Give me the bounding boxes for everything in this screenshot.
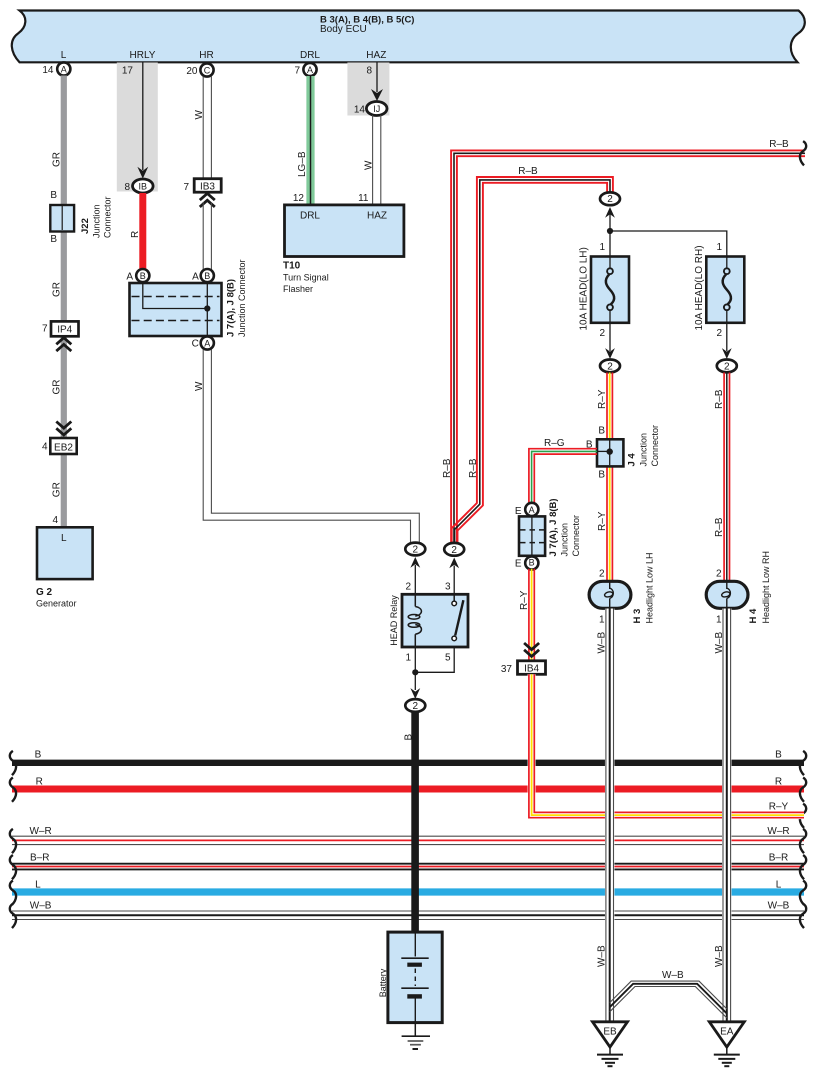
- svg-text:Body ECU: Body ECU: [320, 24, 367, 35]
- svg-text:2: 2: [413, 545, 419, 556]
- svg-text:W–R: W–R: [29, 826, 51, 837]
- svg-text:A: A: [192, 272, 199, 283]
- svg-text:DRL: DRL: [300, 211, 320, 222]
- wire to fuses / junction: [610, 231, 727, 257]
- wire LG-B: [306, 76, 314, 204]
- svg-text:EA: EA: [720, 1026, 734, 1037]
- svg-text:R–Y: R–Y: [769, 802, 789, 813]
- junction dot: [412, 669, 418, 675]
- svg-text:10A HEAD(LO LH): 10A HEAD(LO LH): [578, 247, 589, 330]
- wire break left R: [10, 778, 16, 802]
- chevron down above EB2: [56, 422, 71, 435]
- bus W-B: [12, 911, 804, 920]
- svg-text:7: 7: [183, 182, 189, 193]
- connector IJ: [354, 102, 387, 116]
- svg-text:C: C: [192, 339, 199, 350]
- svg-text:IB3: IB3: [200, 181, 215, 192]
- svg-text:W–B: W–B: [768, 901, 790, 912]
- svg-text:GR: GR: [52, 380, 63, 395]
- bus W-R: [12, 836, 804, 844]
- battery: [378, 932, 442, 1023]
- svg-text:R–B: R–B: [769, 139, 789, 150]
- svg-text:11: 11: [358, 193, 369, 204]
- svg-text:R–Y: R–Y: [597, 389, 608, 409]
- shaded band HRLY: [117, 63, 158, 192]
- svg-text:20: 20: [186, 66, 198, 77]
- pin 20(C) Body ECU terminal HR: [186, 63, 213, 77]
- ground EB: [593, 1022, 628, 1066]
- fuse 10A HEAD(LO RH): [694, 245, 745, 330]
- svg-text:7: 7: [294, 66, 300, 77]
- wire W (IB3 to junction connector): [203, 202, 211, 270]
- wire R-Y (IB4 to right edge): [529, 674, 804, 817]
- svg-text:W–B: W–B: [30, 901, 52, 912]
- arrow into node 2: [605, 207, 615, 231]
- svg-text:R–B: R–B: [714, 517, 725, 537]
- svg-text:W–B: W–B: [714, 945, 725, 967]
- svg-text:3: 3: [445, 582, 451, 593]
- svg-text:2: 2: [716, 569, 722, 580]
- svg-text:IP4: IP4: [57, 325, 72, 336]
- svg-text:IJ: IJ: [373, 104, 380, 114]
- svg-text:1: 1: [716, 615, 722, 626]
- connector IP4: [51, 321, 79, 336]
- svg-text:2: 2: [405, 582, 411, 593]
- svg-text:B: B: [204, 271, 210, 281]
- node 2 (relay out): [405, 699, 425, 712]
- svg-text:J 4: J 4: [627, 453, 638, 467]
- svg-text:J 7(A), J 8(B): J 7(A), J 8(B): [548, 498, 559, 556]
- junction connector J7(A) J8(B) lower: [519, 498, 581, 556]
- svg-text:W: W: [194, 381, 205, 391]
- arrow out of fuse LH: [605, 323, 615, 359]
- svg-text:2: 2: [607, 194, 613, 205]
- wire W-B (bridge between grounds): [610, 981, 727, 1018]
- svg-text:HAZ: HAZ: [366, 50, 386, 61]
- arrow into relay pin3 node: [449, 558, 459, 595]
- svg-text:1: 1: [716, 242, 722, 253]
- svg-text:2: 2: [599, 328, 605, 339]
- svg-text:7: 7: [42, 324, 48, 335]
- svg-text:4: 4: [42, 441, 48, 452]
- junction connector J22: [50, 196, 112, 238]
- svg-text:LG–B: LG–B: [297, 151, 308, 177]
- chevron up below IB3: [200, 194, 215, 207]
- junction connector J7(A) J8(B): [130, 259, 248, 337]
- wire R-Y (fuse LH to H3 via J4): [607, 373, 612, 582]
- wire break left W-R: [10, 829, 16, 853]
- ground EA: [709, 1022, 744, 1066]
- svg-text:EB2: EB2: [54, 442, 73, 453]
- svg-text:R–B: R–B: [468, 458, 479, 478]
- svg-text:Connector: Connector: [571, 515, 581, 557]
- pin E(B) junction connector bottom: [515, 556, 539, 569]
- wire HAZ to IJ: [371, 63, 383, 102]
- headlight H3 Low LH: [589, 552, 654, 623]
- node 2 (fuse LH out): [600, 360, 620, 373]
- wire W (IJ to T10): [373, 115, 381, 204]
- wire R-B (fuse LH to junction): [452, 177, 613, 543]
- node 2 (fuse LH feed): [600, 192, 620, 205]
- svg-text:2: 2: [724, 361, 730, 372]
- svg-text:A: A: [307, 65, 313, 75]
- node 2 (fuse RH out): [717, 360, 737, 373]
- pin E(A) junction connector top: [515, 503, 539, 517]
- svg-text:2: 2: [413, 701, 419, 712]
- svg-text:J 7(A), J 8(B): J 7(A), J 8(B): [226, 279, 237, 337]
- svg-text:W: W: [363, 160, 374, 170]
- ground (battery): [402, 1023, 430, 1049]
- svg-text:R–Y: R–Y: [597, 511, 608, 531]
- svg-text:Junction Connector: Junction Connector: [237, 259, 247, 337]
- bus R: [12, 786, 804, 793]
- svg-text:1: 1: [405, 652, 411, 663]
- svg-text:IB4: IB4: [524, 663, 539, 674]
- svg-text:W–R: W–R: [767, 826, 789, 837]
- svg-text:B: B: [50, 234, 57, 245]
- wire break right W-B: [800, 904, 806, 928]
- svg-text:1: 1: [599, 242, 605, 253]
- pin A(B) on junction connector top: [192, 269, 214, 283]
- pin C(A) on junction connector bottom: [192, 336, 214, 349]
- arrow into relay pin2 node: [410, 557, 420, 594]
- wire HRLY to IB: [137, 63, 148, 179]
- wire W-B (H4 to ground EA): [723, 609, 731, 1023]
- svg-text:Flasher: Flasher: [283, 284, 313, 294]
- svg-text:2: 2: [716, 328, 722, 339]
- wire break right B: [800, 751, 806, 775]
- svg-text:W–B: W–B: [662, 970, 684, 981]
- svg-text:37: 37: [501, 664, 513, 675]
- svg-text:Junction: Junction: [92, 204, 102, 238]
- wire R-B (from right edge to HEAD relay pin 3): [451, 150, 805, 542]
- svg-text:HEAD Relay: HEAD Relay: [389, 595, 399, 646]
- svg-text:W: W: [194, 110, 205, 120]
- svg-text:Headlight Low RH: Headlight Low RH: [761, 551, 771, 624]
- svg-text:C: C: [204, 65, 211, 75]
- wire break right L: [800, 881, 806, 905]
- svg-text:B: B: [598, 470, 605, 481]
- generator G2: [36, 527, 93, 608]
- svg-text:GR: GR: [52, 152, 63, 167]
- svg-text:G 2: G 2: [36, 587, 53, 598]
- svg-text:L: L: [35, 880, 41, 891]
- svg-text:8: 8: [124, 182, 130, 193]
- svg-text:Generator: Generator: [36, 599, 77, 609]
- svg-text:HRLY: HRLY: [130, 50, 156, 61]
- wire break right of R-B: [800, 141, 806, 165]
- svg-text:R–Y: R–Y: [519, 590, 530, 610]
- svg-text:W–B: W–B: [597, 945, 608, 967]
- shaded band HAZ: [347, 63, 389, 116]
- bus B-R: [12, 864, 804, 870]
- svg-text:EB: EB: [603, 1026, 617, 1037]
- connector IB: [124, 179, 153, 193]
- headlight H4 Low RH: [706, 551, 771, 624]
- svg-text:R–B: R–B: [714, 389, 725, 409]
- svg-text:Battery: Battery: [378, 968, 388, 997]
- wire break right R-Y: [800, 804, 806, 828]
- wire W-B (H3 to ground EB): [606, 609, 614, 1023]
- svg-text:12: 12: [293, 193, 305, 204]
- svg-text:T10: T10: [283, 261, 301, 272]
- Body ECU block B3(A),B4(B),B5(C): [12, 11, 805, 63]
- svg-text:A: A: [529, 505, 535, 515]
- connector IB4: [501, 661, 546, 675]
- node 2 (relay pin 2 feed): [405, 543, 425, 556]
- svg-text:L: L: [61, 533, 67, 544]
- pin 7(A) Body ECU terminal DRL: [294, 63, 316, 77]
- connector IB3: [183, 179, 221, 193]
- wire R-B (fuse RH to H4): [724, 373, 729, 582]
- svg-text:B–R: B–R: [769, 853, 788, 864]
- svg-text:HAZ: HAZ: [367, 211, 387, 222]
- svg-text:2: 2: [451, 545, 457, 556]
- svg-text:Junction: Junction: [560, 523, 570, 557]
- svg-text:GR: GR: [52, 482, 63, 497]
- svg-text:B–R: B–R: [30, 853, 49, 864]
- svg-text:B: B: [35, 750, 42, 761]
- svg-text:H 4: H 4: [748, 608, 759, 624]
- wire W (connector to HEAD relay pin 2): [203, 350, 419, 544]
- wire GR generator to ECU: [61, 76, 67, 528]
- svg-text:B: B: [598, 426, 605, 437]
- svg-text:A: A: [61, 64, 67, 74]
- svg-text:14: 14: [42, 65, 54, 76]
- svg-text:A: A: [126, 272, 133, 283]
- wire break left W-B: [10, 904, 16, 928]
- svg-text:HR: HR: [199, 50, 213, 61]
- svg-text:GR: GR: [52, 282, 63, 297]
- wire break left L: [10, 881, 16, 905]
- wire W (HR to IB3): [203, 77, 211, 180]
- arrow out of fuse RH: [722, 323, 732, 359]
- svg-text:L: L: [776, 880, 782, 891]
- pin 14(A) Body ECU terminal L: [42, 62, 70, 76]
- wire R: [139, 193, 146, 270]
- svg-text:14: 14: [354, 105, 366, 116]
- svg-text:R–B: R–B: [442, 458, 453, 478]
- connector EB2: [50, 438, 76, 454]
- svg-text:Connector: Connector: [650, 425, 660, 467]
- junction connector J4: [597, 425, 660, 467]
- svg-text:H 3: H 3: [632, 609, 643, 624]
- svg-text:R: R: [36, 777, 43, 788]
- svg-text:B: B: [775, 750, 782, 761]
- svg-text:17: 17: [122, 66, 134, 77]
- chevron up below IP4: [56, 338, 71, 351]
- svg-text:5: 5: [445, 652, 451, 663]
- svg-text:Headlight Low LH: Headlight Low LH: [645, 552, 655, 623]
- svg-text:4: 4: [52, 515, 58, 526]
- svg-text:8: 8: [366, 66, 372, 77]
- arrow into node 2 (relay out): [410, 688, 420, 699]
- svg-text:Junction: Junction: [638, 433, 648, 467]
- bus L: [12, 888, 804, 895]
- junction dot: [607, 228, 613, 234]
- svg-text:B: B: [529, 558, 535, 568]
- wire relay pins 1,5 to node: [415, 647, 454, 690]
- node 2 (relay pin 3 feed): [444, 543, 464, 556]
- wire break left B: [10, 751, 16, 775]
- svg-text:B: B: [140, 271, 146, 281]
- turn signal flasher T10: [283, 205, 404, 294]
- wire B (relay to battery via bus): [411, 712, 419, 934]
- wire R-G (J4 to junction connector): [529, 449, 597, 504]
- chevron down above IB4: [524, 643, 539, 656]
- svg-text:Connector: Connector: [103, 196, 113, 238]
- svg-text:R–G: R–G: [544, 438, 565, 449]
- wire break right B-R: [800, 855, 806, 879]
- svg-text:R–B: R–B: [518, 166, 538, 177]
- svg-text:1: 1: [599, 615, 605, 626]
- wire break right R: [800, 778, 806, 802]
- HEAD Relay: [389, 594, 468, 647]
- svg-text:J22: J22: [80, 218, 91, 234]
- wire R-Y (connector to IB4): [529, 569, 534, 661]
- svg-text:R: R: [130, 231, 141, 238]
- fuse 10A HEAD(LO LH): [578, 247, 629, 330]
- svg-text:2: 2: [599, 569, 605, 580]
- wire break left B-R: [10, 855, 16, 879]
- svg-text:B: B: [50, 190, 57, 201]
- wire break right W-R: [800, 829, 806, 853]
- svg-text:10A HEAD(LO RH): 10A HEAD(LO RH): [694, 245, 705, 330]
- svg-text:IB: IB: [139, 181, 148, 191]
- svg-text:Turn Signal: Turn Signal: [283, 273, 329, 283]
- bus B: [12, 760, 804, 766]
- svg-text:A: A: [204, 338, 210, 348]
- pin A(B) junction connector: [126, 269, 149, 283]
- svg-text:R: R: [775, 777, 782, 788]
- svg-text:L: L: [61, 50, 67, 61]
- svg-text:DRL: DRL: [300, 50, 320, 61]
- svg-text:2: 2: [607, 361, 613, 372]
- svg-text:E: E: [515, 558, 522, 569]
